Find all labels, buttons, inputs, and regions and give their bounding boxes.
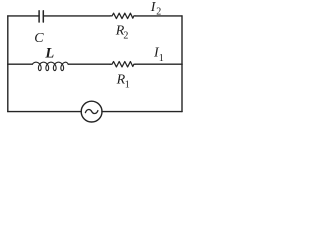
wire left border upper (7, 16, 9, 64)
svg-text:2: 2 (123, 30, 128, 41)
label R2 (115, 24, 129, 42)
svg-text:2: 2 (156, 7, 161, 18)
wire top-right segment (135, 15, 182, 17)
wire right border lower (181, 64, 183, 111)
capacitor C (39, 11, 43, 22)
inductor L (32, 62, 68, 70)
wire middle-left segment (8, 63, 33, 65)
wire middle-right segment (135, 63, 182, 65)
wire top-middle segment (43, 15, 110, 17)
svg-text:1: 1 (159, 53, 164, 64)
svg-text:L: L (44, 46, 54, 62)
resistor R1 (110, 62, 135, 67)
wire left border lower (7, 64, 9, 111)
wire bottom-left segment (8, 111, 81, 113)
current label I2 (150, 0, 162, 18)
resistor R2 (110, 13, 135, 18)
label R1 (116, 72, 130, 90)
svg-text:C: C (34, 31, 44, 46)
wire middle segment (68, 63, 110, 65)
wire right border upper (181, 16, 183, 64)
wire bottom-right segment (102, 111, 182, 113)
wire top-left segment (8, 15, 39, 17)
current label I1 (153, 46, 164, 64)
svg-text:1: 1 (125, 79, 130, 90)
ac source (81, 101, 102, 122)
